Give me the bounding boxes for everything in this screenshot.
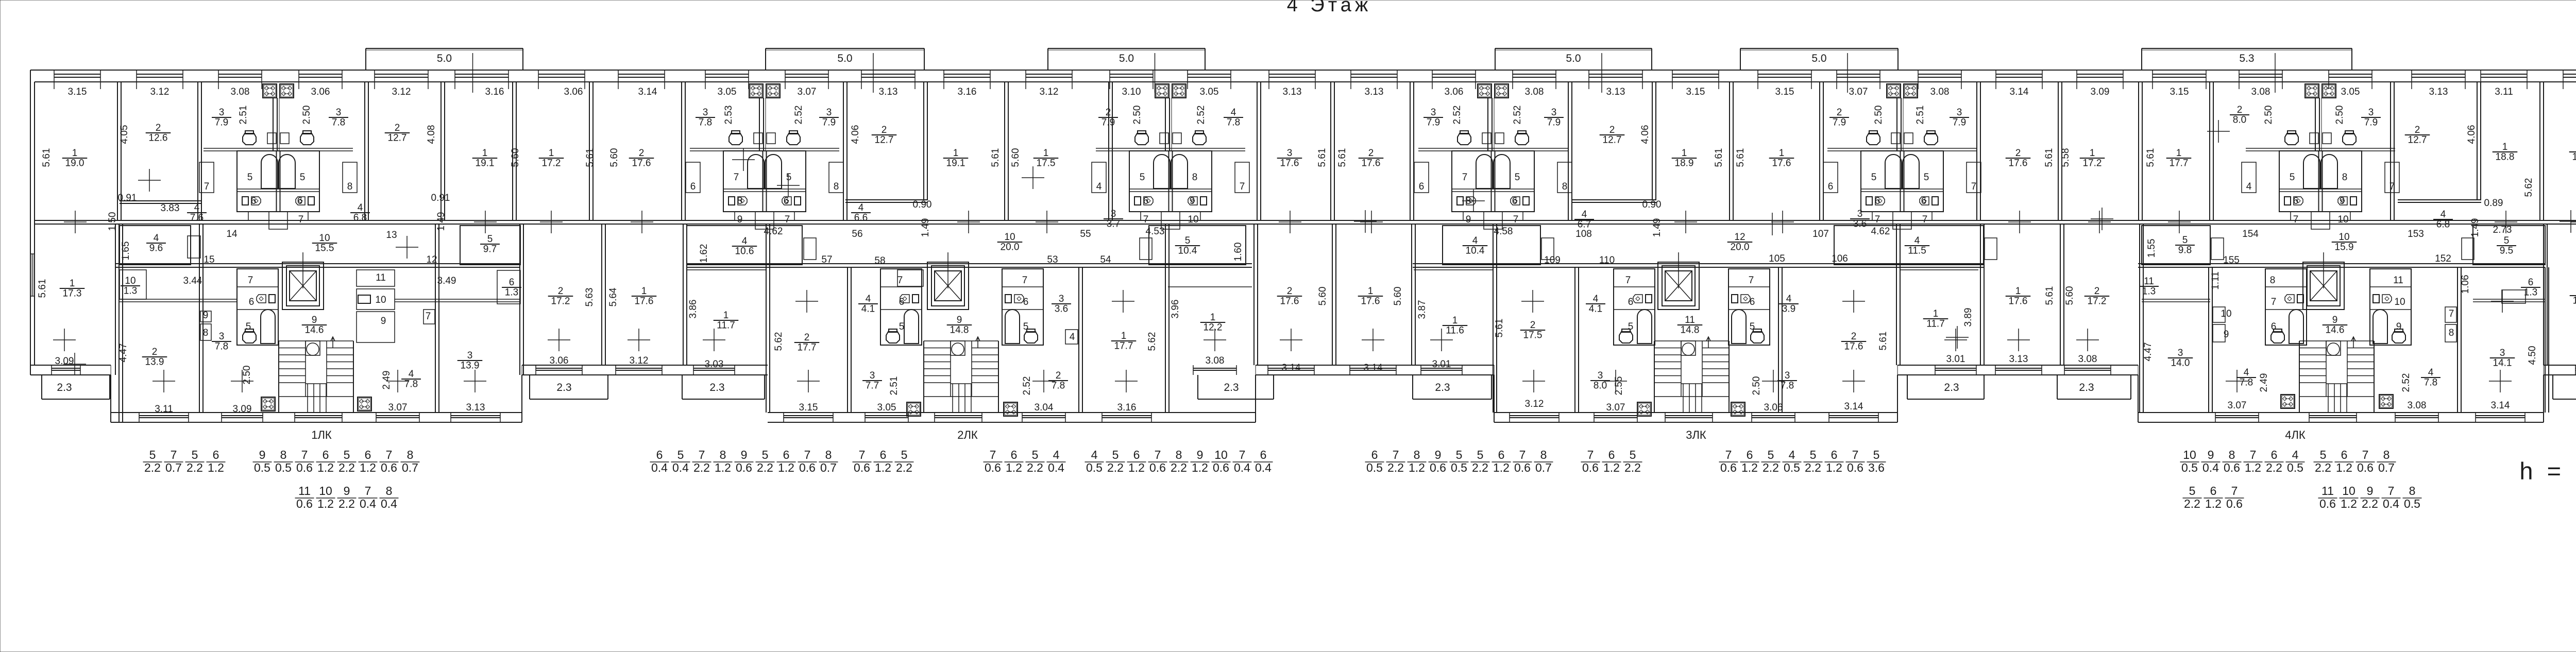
svg-text:20.0: 20.0 — [1001, 242, 1020, 253]
svg-text:108: 108 — [1575, 229, 1592, 239]
top balcony 5.3 — [2142, 48, 2352, 49]
svg-text:0.7: 0.7 — [1535, 461, 1552, 474]
svg-text:8: 8 — [2342, 172, 2348, 183]
svg-text:0.6: 0.6 — [2319, 497, 2336, 510]
svg-text:17.6: 17.6 — [2009, 158, 2028, 169]
svg-text:4.62: 4.62 — [764, 226, 783, 237]
bottom balcony 2.3 — [1412, 375, 1413, 399]
svg-text:3.13: 3.13 — [466, 402, 485, 413]
svg-text:4: 4 — [858, 202, 864, 213]
svg-text:6: 6 — [1750, 297, 1755, 307]
svg-text:11: 11 — [376, 272, 386, 283]
svg-text:5.60: 5.60 — [2064, 286, 2075, 305]
top balcony 5.0 — [366, 48, 523, 49]
svg-text:0.4: 0.4 — [360, 497, 376, 510]
building outline: top wall — [30, 70, 2576, 71]
svg-text:7: 7 — [386, 448, 393, 461]
lower bathroom cluster at x=4640 — [2370, 269, 2411, 345]
svg-text:1: 1 — [1933, 308, 1939, 319]
svg-text:6: 6 — [880, 448, 887, 461]
section 2 kitchen 10.6 — [687, 226, 802, 265]
svg-text:19.1: 19.1 — [946, 158, 965, 169]
svg-text:3.6: 3.6 — [1055, 304, 1068, 315]
stair flights — [924, 340, 998, 341]
svg-text:3.13: 3.13 — [879, 87, 898, 97]
svg-text:14.6: 14.6 — [2326, 325, 2345, 336]
svg-text:2: 2 — [1609, 125, 1615, 135]
svg-text:0.4: 0.4 — [1234, 461, 1250, 474]
bottom balcony 2.3 — [41, 375, 42, 399]
svg-text:0.6: 0.6 — [1582, 461, 1599, 474]
svg-text:9: 9 — [2340, 196, 2345, 207]
svg-text:5.60: 5.60 — [1393, 287, 1403, 306]
svg-text:3.15: 3.15 — [1686, 87, 1705, 97]
svg-text:2.53: 2.53 — [723, 106, 734, 125]
svg-text:2.51: 2.51 — [238, 106, 249, 125]
svg-text:7.8: 7.8 — [215, 341, 228, 352]
svg-text:3: 3 — [1857, 209, 1863, 219]
svg-text:6: 6 — [1921, 196, 1927, 207]
svg-text:2.49: 2.49 — [381, 371, 392, 390]
svg-text:7: 7 — [1852, 448, 1859, 461]
svg-text:6: 6 — [656, 448, 663, 461]
svg-text:9: 9 — [2367, 484, 2374, 497]
bottom balcony 2.3 — [1197, 375, 1198, 399]
svg-text:6: 6 — [251, 196, 257, 207]
svg-text:4: 4 — [2244, 367, 2249, 378]
svg-text:0.90: 0.90 — [1642, 199, 1662, 210]
svg-text:4: 4 — [866, 294, 871, 304]
svg-text:3.05: 3.05 — [877, 402, 896, 413]
svg-text:4: 4 — [742, 236, 748, 247]
svg-text:17.6: 17.6 — [635, 296, 654, 307]
svg-text:7.9: 7.9 — [1427, 117, 1440, 128]
svg-text:3.44: 3.44 — [183, 276, 202, 286]
svg-text:7: 7 — [1922, 214, 1928, 225]
svg-text:17.7: 17.7 — [2170, 158, 2189, 169]
svg-text:1: 1 — [2090, 148, 2095, 159]
svg-text:10: 10 — [2221, 308, 2231, 319]
svg-text:8: 8 — [2449, 328, 2454, 338]
svg-text:8: 8 — [2229, 448, 2235, 461]
svg-text:107: 107 — [1812, 229, 1829, 239]
svg-text:3.16: 3.16 — [485, 87, 504, 97]
svg-text:3.14: 3.14 — [638, 87, 657, 97]
svg-text:1.2: 1.2 — [1493, 461, 1510, 474]
svg-text:7: 7 — [1519, 448, 1526, 461]
svg-text:110: 110 — [1599, 255, 1615, 266]
svg-text:17.6: 17.6 — [632, 158, 651, 169]
svg-text:8: 8 — [1176, 448, 1182, 461]
svg-text:0.5: 0.5 — [1366, 461, 1383, 474]
svg-text:8: 8 — [737, 196, 743, 207]
svg-text:0.6: 0.6 — [799, 461, 816, 474]
svg-text:17.6: 17.6 — [2009, 296, 2028, 307]
svg-text:2.2: 2.2 — [144, 461, 161, 474]
svg-text:15: 15 — [204, 254, 214, 265]
svg-text:2: 2 — [2415, 125, 2420, 135]
svg-text:2: 2 — [1056, 370, 1061, 381]
svg-text:0.6: 0.6 — [736, 461, 752, 474]
svg-text:10: 10 — [2183, 448, 2196, 461]
staircase / elevator unit at x=1800 — [927, 262, 969, 310]
svg-text:5.61: 5.61 — [585, 148, 596, 167]
svg-text:6: 6 — [1608, 448, 1615, 461]
svg-text:6: 6 — [783, 448, 790, 461]
svg-text:12.7: 12.7 — [1603, 135, 1622, 146]
svg-text:7: 7 — [1462, 172, 1468, 183]
svg-text:6: 6 — [899, 297, 905, 307]
svg-text:10.4: 10.4 — [1466, 246, 1485, 256]
corridor bottom wall segments — [116, 263, 520, 264]
svg-text:11: 11 — [2393, 275, 2403, 286]
section4 left closets 10/9 — [2213, 307, 2225, 322]
svg-text:1: 1 — [641, 286, 647, 297]
svg-text:5.0: 5.0 — [1811, 53, 1826, 64]
svg-text:1.2: 1.2 — [208, 461, 224, 474]
svg-text:6: 6 — [690, 181, 696, 192]
svg-text:3: 3 — [870, 370, 875, 381]
svg-text:5: 5 — [899, 321, 905, 332]
svg-text:1.2: 1.2 — [875, 461, 891, 474]
svg-text:4: 4 — [1053, 448, 1060, 461]
svg-text:4: 4 — [1091, 448, 1098, 461]
top balcony 5.0 — [1048, 48, 1205, 49]
svg-text:3: 3 — [1785, 370, 1790, 381]
svg-text:17.7: 17.7 — [798, 342, 817, 353]
svg-text:5: 5 — [1871, 172, 1877, 183]
upper band room walls — [117, 82, 118, 220]
svg-text:5: 5 — [1810, 448, 1817, 461]
lower bathroom cluster at x=1749 — [880, 269, 922, 345]
svg-text:105: 105 — [1769, 253, 1785, 264]
svg-text:5: 5 — [1140, 172, 1145, 183]
svg-text:2.2: 2.2 — [1171, 461, 1187, 474]
svg-text:11.5: 11.5 — [1908, 246, 1926, 256]
svg-text:2.2: 2.2 — [338, 497, 355, 510]
svg-text:8.0: 8.0 — [1594, 381, 1607, 391]
svg-text:4: 4 — [1231, 107, 1236, 118]
lower bathroom cluster at x=3395 — [1728, 269, 1770, 345]
svg-text:153: 153 — [2408, 229, 2424, 239]
svg-text:2.2: 2.2 — [2184, 497, 2200, 510]
svg-text:3: 3 — [1059, 294, 1064, 304]
long mid wall (upper rooms / corridor band) — [35, 220, 2576, 221]
svg-text:5.62: 5.62 — [773, 332, 784, 351]
svg-text:3.89: 3.89 — [1963, 308, 1974, 327]
svg-text:2.3: 2.3 — [57, 382, 72, 393]
svg-text:14.8: 14.8 — [950, 325, 969, 336]
svg-text:3.7: 3.7 — [1107, 219, 1120, 230]
svg-text:7: 7 — [298, 214, 304, 225]
svg-text:3.05: 3.05 — [2341, 87, 2360, 97]
svg-text:3.08: 3.08 — [2408, 400, 2427, 411]
svg-text:3.86: 3.86 — [688, 300, 699, 319]
svg-text:4: 4 — [2441, 209, 2446, 220]
svg-text:5: 5 — [2189, 484, 2196, 497]
svg-text:1: 1 — [482, 148, 488, 159]
staircase / elevator unit at x=3218 — [1658, 262, 1699, 310]
svg-text:4.06: 4.06 — [2466, 125, 2477, 144]
svg-text:56: 56 — [852, 229, 862, 239]
lower bathroom cluster at x=3172 — [1614, 269, 1655, 345]
svg-text:3.01: 3.01 — [1946, 354, 1965, 365]
svg-text:0.89: 0.89 — [2484, 198, 2503, 209]
svg-text:6: 6 — [365, 448, 371, 461]
svg-text:3.05: 3.05 — [1200, 87, 1219, 97]
svg-text:7: 7 — [804, 448, 811, 461]
svg-text:5: 5 — [1924, 172, 1929, 183]
svg-text:3: 3 — [1111, 209, 1116, 219]
svg-text:54: 54 — [1100, 254, 1111, 265]
svg-text:3: 3 — [826, 107, 832, 118]
svg-text:17.6: 17.6 — [1280, 296, 1299, 307]
top balcony 5.0 — [766, 48, 924, 49]
svg-text:2.2: 2.2 — [1387, 461, 1404, 474]
svg-text:3: 3 — [219, 107, 225, 118]
svg-text:3.83: 3.83 — [161, 203, 180, 214]
svg-text:7: 7 — [301, 448, 308, 461]
svg-text:11.7: 11.7 — [717, 320, 735, 331]
svg-text:6.8: 6.8 — [353, 213, 367, 224]
svg-text:6: 6 — [2271, 448, 2278, 461]
svg-text:9: 9 — [737, 214, 743, 225]
svg-text:2.52: 2.52 — [2401, 373, 2412, 392]
bottom balcony 2.3 — [1907, 375, 1908, 399]
svg-text:0.6: 0.6 — [1720, 461, 1737, 474]
svg-text:4.50: 4.50 — [2527, 346, 2538, 365]
svg-text:7.7: 7.7 — [866, 381, 879, 391]
svg-text:2: 2 — [395, 123, 400, 133]
svg-text:14.6: 14.6 — [305, 325, 324, 336]
svg-text:4: 4 — [1789, 448, 1795, 461]
svg-text:3.07: 3.07 — [1606, 402, 1625, 413]
svg-text:3: 3 — [467, 350, 473, 361]
svg-text:5: 5 — [1628, 321, 1634, 332]
svg-text:1: 1 — [549, 148, 554, 159]
svg-text:1.49: 1.49 — [1652, 218, 1663, 237]
svg-text:5: 5 — [1112, 448, 1119, 461]
svg-text:2: 2 — [639, 148, 645, 159]
svg-text:4.53: 4.53 — [1146, 226, 1165, 237]
svg-text:5.64: 5.64 — [608, 287, 619, 306]
svg-text:7.9: 7.9 — [1833, 117, 1846, 128]
bathroom cluster at x=4504 — [2305, 84, 2319, 98]
kitchen door leafs on corridor wall — [804, 238, 816, 260]
svg-text:1: 1 — [2176, 148, 2182, 159]
svg-text:3.08: 3.08 — [2078, 354, 2097, 365]
svg-text:7: 7 — [1022, 275, 1028, 286]
svg-text:154: 154 — [2242, 229, 2259, 239]
svg-text:6: 6 — [1498, 448, 1505, 461]
svg-text:2.2: 2.2 — [693, 461, 710, 474]
svg-text:9: 9 — [381, 316, 386, 327]
svg-text:3.16: 3.16 — [958, 87, 977, 97]
svg-text:13.9: 13.9 — [145, 357, 164, 368]
svg-text:12.6: 12.6 — [149, 133, 168, 144]
svg-text:5: 5 — [1456, 448, 1463, 461]
svg-text:7: 7 — [1240, 181, 1245, 192]
svg-text:3: 3 — [1551, 107, 1557, 118]
svg-text:7: 7 — [1143, 214, 1149, 225]
svg-text:11: 11 — [1685, 315, 1695, 325]
svg-text:1.2: 1.2 — [1741, 461, 1758, 474]
svg-text:15.9: 15.9 — [2335, 242, 2354, 253]
svg-text:2: 2 — [882, 125, 887, 135]
svg-text:17.2: 17.2 — [551, 296, 570, 307]
svg-text:0.91: 0.91 — [431, 193, 450, 203]
svg-text:0.5: 0.5 — [275, 461, 292, 474]
svg-text:4.62: 4.62 — [1871, 226, 1890, 237]
bottom wall deep stretches — [111, 412, 522, 413]
svg-text:2.50: 2.50 — [1132, 106, 1143, 125]
svg-text:3.13: 3.13 — [1606, 87, 1625, 97]
svg-text:5.0: 5.0 — [1119, 53, 1134, 64]
svg-text:2: 2 — [558, 286, 564, 297]
svg-text:1.06: 1.06 — [2460, 275, 2471, 294]
svg-text:1.49: 1.49 — [436, 212, 447, 231]
svg-text:0.6: 0.6 — [2357, 461, 2374, 474]
svg-text:5: 5 — [149, 448, 156, 461]
svg-text:9: 9 — [957, 315, 962, 325]
svg-text:3.03: 3.03 — [705, 359, 724, 370]
svg-text:2.50: 2.50 — [242, 366, 252, 385]
svg-text:10: 10 — [2342, 484, 2355, 497]
svg-text:17.6: 17.6 — [1844, 341, 1863, 352]
svg-text:8: 8 — [1414, 448, 1420, 461]
svg-text:1.3: 1.3 — [2524, 287, 2537, 298]
svg-text:5: 5 — [901, 448, 908, 461]
svg-text:5: 5 — [487, 234, 493, 245]
svg-text:1.65: 1.65 — [121, 242, 131, 261]
svg-text:7: 7 — [734, 172, 739, 183]
svg-text:20.0: 20.0 — [1731, 242, 1750, 253]
svg-text:6: 6 — [1371, 448, 1378, 461]
svg-text:9.8: 9.8 — [2178, 245, 2192, 256]
svg-text:11: 11 — [2144, 276, 2154, 287]
svg-text:1.2: 1.2 — [2205, 497, 2222, 510]
svg-text:5.61: 5.61 — [2044, 286, 2055, 305]
svg-text:53: 53 — [1047, 254, 1058, 265]
svg-text:3.14: 3.14 — [1282, 363, 1301, 373]
section 3 kitchen 10.4 — [1443, 226, 1540, 265]
svg-text:3.13: 3.13 — [2009, 354, 2028, 365]
svg-text:2.50: 2.50 — [2334, 106, 2345, 125]
svg-text:58: 58 — [874, 255, 885, 266]
svg-text:1.2: 1.2 — [1409, 461, 1425, 474]
stair flights — [2299, 340, 2374, 341]
svg-text:5: 5 — [1630, 448, 1636, 461]
section 3 kitchen 11.5 — [1834, 226, 1984, 265]
svg-text:9: 9 — [2224, 329, 2229, 340]
svg-text:6: 6 — [2528, 277, 2534, 288]
bottom wall steps — [110, 375, 111, 422]
svg-text:3.09: 3.09 — [55, 356, 74, 367]
svg-text:3ЛК: 3ЛК — [1686, 428, 1706, 441]
svg-text:4: 4 — [1914, 235, 1920, 246]
staircase entrance door — [2309, 415, 2357, 416]
svg-text:3.6: 3.6 — [1853, 219, 1867, 230]
door 9.6 — [188, 236, 200, 258]
svg-text:3.6: 3.6 — [1868, 461, 1885, 474]
svg-text:7.8: 7.8 — [332, 117, 345, 128]
svg-text:1.2: 1.2 — [1192, 461, 1208, 474]
svg-text:2.2: 2.2 — [338, 461, 355, 474]
svg-text:4: 4 — [154, 233, 159, 244]
svg-text:6: 6 — [2293, 196, 2299, 207]
svg-text:1: 1 — [72, 148, 78, 159]
svg-text:12: 12 — [1734, 232, 1745, 243]
svg-text:7: 7 — [171, 448, 177, 461]
svg-text:14.0: 14.0 — [2171, 358, 2190, 369]
svg-text:5: 5 — [1032, 448, 1039, 461]
lower bathroom cluster at x=4437 — [2265, 269, 2307, 345]
svg-text:10.4: 10.4 — [1178, 246, 1197, 256]
svg-text:h = 2.55: h = 2.55 — [2519, 457, 2576, 485]
svg-text:7.6: 7.6 — [190, 213, 204, 224]
svg-text:3.15: 3.15 — [799, 402, 818, 413]
svg-text:14: 14 — [226, 229, 238, 239]
section1 right closets 11/10/9 + hall 3.49 — [357, 270, 395, 286]
svg-text:6: 6 — [2271, 321, 2277, 332]
svg-text:0.4: 0.4 — [1048, 461, 1064, 474]
svg-text:3.08: 3.08 — [2251, 87, 2270, 97]
left wall windows — [31, 254, 32, 296]
svg-text:7: 7 — [859, 448, 866, 461]
svg-text:4.08: 4.08 — [426, 125, 437, 144]
svg-text:1.2: 1.2 — [360, 461, 376, 474]
svg-text:5.61: 5.61 — [1317, 148, 1328, 167]
svg-text:9: 9 — [1435, 448, 1442, 461]
svg-text:1.2: 1.2 — [2336, 461, 2352, 474]
svg-text:7.8: 7.8 — [2240, 378, 2253, 388]
svg-text:4: 4 — [1593, 294, 1599, 304]
svg-text:8: 8 — [1540, 448, 1547, 461]
svg-text:5: 5 — [2290, 172, 2295, 183]
svg-text:10: 10 — [1188, 214, 1198, 225]
bathroom cluster at x=540 — [263, 84, 277, 98]
svg-text:5.63: 5.63 — [584, 288, 595, 307]
svg-text:2.2: 2.2 — [187, 461, 203, 474]
svg-text:7: 7 — [1513, 214, 1519, 225]
svg-text:4.47: 4.47 — [118, 344, 129, 363]
svg-text:12.7: 12.7 — [2408, 135, 2427, 146]
svg-text:4.58: 4.58 — [1494, 226, 1513, 237]
top balcony 5.0 — [1740, 48, 1898, 49]
svg-text:8: 8 — [2409, 484, 2416, 497]
svg-text:3.09: 3.09 — [233, 404, 252, 415]
svg-text:8: 8 — [2383, 448, 2390, 461]
svg-text:17.3: 17.3 — [63, 288, 82, 299]
svg-text:6: 6 — [1143, 196, 1149, 207]
staircase / elevator unit at x=548 — [282, 262, 324, 310]
svg-text:7.8: 7.8 — [699, 117, 712, 128]
svg-text:7.9: 7.9 — [215, 117, 228, 128]
svg-text:4.06: 4.06 — [1640, 125, 1651, 144]
svg-text:2.55: 2.55 — [1614, 376, 1624, 396]
svg-text:3.14: 3.14 — [1844, 401, 1863, 412]
svg-text:1.2: 1.2 — [317, 497, 334, 510]
svg-text:2: 2 — [1287, 286, 1293, 297]
svg-text:3: 3 — [336, 107, 342, 118]
bottom balcony 2.3 — [682, 375, 683, 399]
svg-text:1.50: 1.50 — [107, 212, 118, 231]
svg-text:6: 6 — [1512, 196, 1518, 207]
svg-text:3.14: 3.14 — [2491, 400, 2510, 411]
svg-text:0.5: 0.5 — [1784, 461, 1800, 474]
svg-text:7: 7 — [1725, 448, 1732, 461]
svg-text:7: 7 — [785, 214, 790, 225]
